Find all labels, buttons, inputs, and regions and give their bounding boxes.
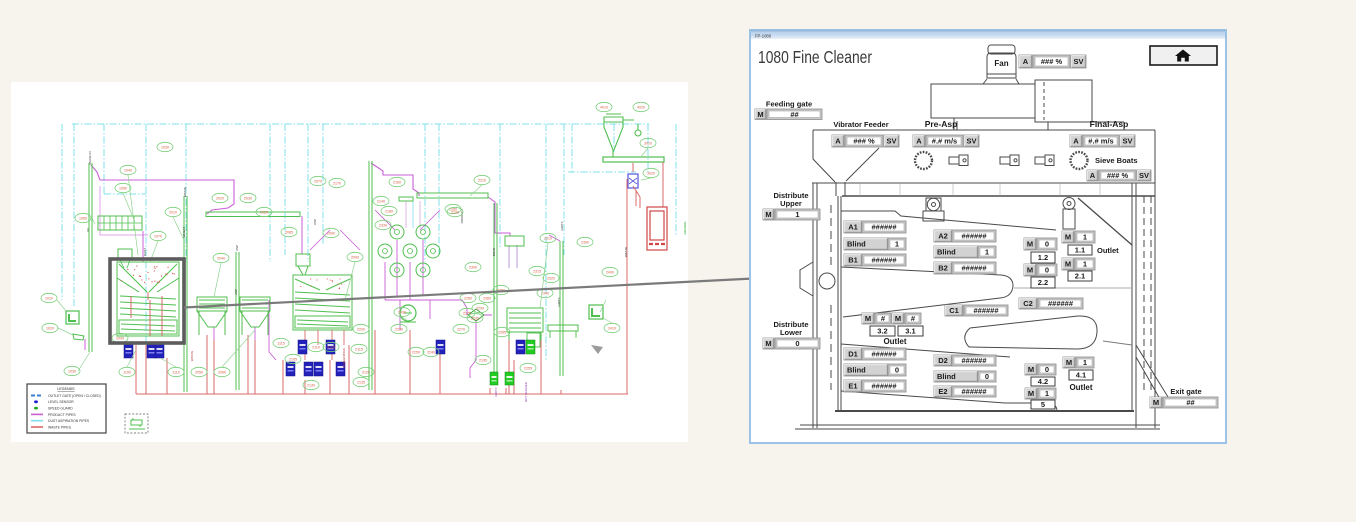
svg-text:### %: ### %: [1041, 57, 1063, 66]
svg-text:4010: 4010: [600, 106, 608, 110]
svg-text:1: 1: [1083, 358, 1087, 367]
svg-text:0: 0: [1045, 266, 1049, 275]
svg-text:######: ######: [1048, 299, 1074, 308]
svg-text:2105: 2105: [289, 358, 297, 362]
svg-text:2260: 2260: [464, 297, 472, 301]
svg-text:1: 1: [1045, 389, 1049, 398]
svg-text:2050: 2050: [195, 371, 203, 375]
svg-text:2240: 2240: [427, 351, 435, 355]
svg-text:2070: 2070: [314, 180, 322, 184]
svg-text:M: M: [1028, 365, 1034, 374]
svg-text:2275: 2275: [463, 312, 471, 316]
svg-text:1060: 1060: [79, 217, 87, 221]
svg-text:Exit gate: Exit gate: [1170, 387, 1201, 396]
svg-text:2010: 2010: [169, 211, 177, 215]
svg-text:IN: IN: [86, 229, 90, 232]
svg-text:M: M: [1065, 260, 1071, 269]
svg-text:A2: A2: [938, 232, 948, 241]
svg-text:SV: SV: [966, 137, 976, 146]
svg-text:2170: 2170: [333, 182, 341, 186]
svg-text:A1: A1: [848, 223, 858, 232]
svg-text:M: M: [865, 314, 871, 323]
svg-text:1: 1: [1083, 260, 1087, 269]
svg-text:Outlet: Outlet: [1069, 383, 1092, 392]
svg-text:4.1: 4.1: [1076, 371, 1086, 380]
svg-text:Blind: Blind: [847, 366, 866, 375]
svg-text:#.# m/s: #.# m/s: [1088, 137, 1113, 146]
svg-text:##: ##: [1186, 398, 1195, 407]
svg-text:SV: SV: [886, 137, 896, 146]
svg-text:3.2: 3.2: [877, 327, 887, 336]
svg-text:PRODUCT PIPES: PRODUCT PIPES: [48, 413, 76, 417]
svg-text:SV: SV: [1139, 171, 1149, 180]
svg-text:Blind: Blind: [847, 240, 866, 249]
svg-text:2030: 2030: [244, 197, 252, 201]
svg-text:2090: 2090: [327, 232, 335, 236]
svg-text:2300: 2300: [469, 266, 477, 270]
svg-text:2295: 2295: [471, 317, 479, 321]
svg-text:2.1: 2.1: [1075, 272, 1085, 281]
svg-text:A: A: [1073, 137, 1079, 146]
svg-text:2120: 2120: [327, 346, 335, 350]
svg-text:Fan: Fan: [994, 59, 1008, 68]
svg-text:######: ######: [961, 356, 987, 365]
svg-text:1.1: 1.1: [1075, 246, 1085, 255]
svg-text:2195: 2195: [479, 359, 487, 363]
svg-text:######: ######: [961, 387, 987, 396]
svg-text:2125: 2125: [362, 371, 370, 375]
svg-text:0: 0: [895, 366, 899, 375]
svg-text:2400: 2400: [606, 271, 614, 275]
svg-text:M: M: [895, 314, 901, 323]
svg-text:B2: B2: [938, 264, 948, 273]
svg-text:Pre-Asp: Pre-Asp: [925, 119, 958, 129]
svg-text:1030: 1030: [161, 146, 169, 150]
svg-text:2330: 2330: [379, 224, 387, 228]
svg-text:2085: 2085: [285, 231, 293, 235]
svg-text:2250: 2250: [412, 351, 420, 355]
svg-text:WHEAT: WHEAT: [182, 227, 186, 238]
svg-text:2000: 2000: [351, 256, 359, 260]
svg-text:M: M: [1027, 240, 1033, 249]
svg-text:2020: 2020: [216, 197, 224, 201]
svg-text:Outlet: Outlet: [1097, 246, 1119, 255]
svg-text:1010: 1010: [45, 297, 53, 301]
svg-text:3010: 3010: [644, 142, 652, 146]
svg-text:ASP: ASP: [234, 289, 238, 295]
svg-text:WASTE PIPES: WASTE PIPES: [48, 425, 72, 429]
svg-text:2315: 2315: [533, 270, 541, 274]
svg-text:1050: 1050: [119, 187, 127, 191]
svg-text:######: ######: [961, 264, 987, 273]
svg-text:2040: 2040: [217, 257, 225, 261]
svg-text:1.2: 1.2: [1038, 253, 1048, 262]
svg-text:LEVEL SENSOR: LEVEL SENSOR: [48, 400, 74, 404]
svg-text:A: A: [916, 137, 922, 146]
svg-text:2230: 2230: [395, 328, 403, 332]
svg-text:LEGENDS: LEGENDS: [57, 387, 75, 391]
svg-text:######: ######: [871, 256, 897, 265]
svg-text:2270: 2270: [457, 328, 465, 332]
svg-text:4.2: 4.2: [1038, 377, 1048, 386]
svg-text:A: A: [1090, 171, 1096, 180]
svg-text:D1: D1: [848, 350, 858, 359]
svg-text:2110: 2110: [312, 346, 320, 350]
svg-text:0: 0: [1045, 240, 1049, 249]
svg-text:1110: 1110: [172, 371, 179, 375]
svg-text:SPEED GUARD: SPEED GUARD: [48, 407, 73, 411]
svg-text:2265: 2265: [498, 331, 506, 335]
svg-text:OUTLET GATE (OPEN / CLOSED): OUTLET GATE (OPEN / CLOSED): [48, 394, 101, 398]
svg-text:0: 0: [985, 372, 989, 381]
svg-text:D2: D2: [938, 356, 948, 365]
svg-text:2310: 2310: [544, 237, 552, 241]
svg-text:B1: B1: [848, 256, 858, 265]
svg-text:DUST ASPIRATION PIPES: DUST ASPIRATION PIPES: [48, 419, 90, 423]
svg-text:ASP: ASP: [235, 245, 239, 251]
svg-text:1040: 1040: [124, 169, 132, 173]
svg-text:3.1: 3.1: [905, 327, 915, 336]
svg-text:2360: 2360: [483, 297, 491, 301]
svg-text:1: 1: [795, 210, 799, 219]
svg-text:Blind: Blind: [937, 372, 956, 381]
svg-text:2410: 2410: [608, 327, 616, 331]
svg-text:2320: 2320: [547, 277, 555, 281]
svg-text:1030: 1030: [68, 370, 76, 374]
svg-text:2210: 2210: [478, 179, 486, 183]
svg-text:1100: 1100: [123, 371, 131, 375]
svg-text:GRITZ: GRITZ: [557, 297, 561, 306]
svg-text:######: ######: [973, 306, 999, 315]
svg-text:WASTE: WASTE: [183, 187, 187, 198]
svg-text:0: 0: [795, 339, 799, 348]
svg-text:E2: E2: [938, 387, 947, 396]
svg-text:M: M: [1027, 266, 1033, 275]
svg-text:Feeding gate: Feeding gate: [766, 100, 812, 109]
svg-text:2060: 2060: [218, 371, 226, 375]
svg-text:### %: ### %: [853, 137, 875, 146]
svg-text:M: M: [1066, 358, 1072, 367]
svg-text:2.2: 2.2: [1038, 278, 1048, 287]
svg-text:GRITZ: GRITZ: [494, 387, 498, 396]
svg-text:######: ######: [871, 382, 897, 391]
svg-text:A: A: [835, 137, 841, 146]
svg-text:0: 0: [1045, 365, 1049, 374]
svg-text:E1: E1: [848, 382, 857, 391]
svg-text:FP-1080: FP-1080: [755, 34, 772, 39]
svg-text:2140: 2140: [377, 200, 385, 204]
svg-text:######: ######: [871, 350, 897, 359]
svg-text:1070: 1070: [154, 235, 162, 239]
svg-text:2025: 2025: [260, 211, 268, 215]
svg-text:M: M: [757, 110, 763, 119]
svg-text:5: 5: [1041, 400, 1045, 409]
svg-text:NOT GRADED: NOT GRADED: [524, 381, 528, 402]
svg-text:2160: 2160: [393, 181, 401, 185]
svg-text:1: 1: [1083, 233, 1087, 242]
svg-text:M: M: [1153, 398, 1159, 407]
svg-text:Vibrator Feeder: Vibrator Feeder: [833, 120, 888, 129]
svg-text:C2: C2: [1023, 299, 1033, 308]
svg-text:WASTE: WASTE: [190, 351, 194, 362]
svg-text:Upper: Upper: [780, 199, 802, 208]
svg-text:DUST: DUST: [143, 248, 147, 256]
svg-text:SV: SV: [1122, 137, 1132, 146]
svg-text:M: M: [1028, 389, 1034, 398]
svg-text:M: M: [765, 339, 771, 348]
svg-text:SCREENINGS: SCREENINGS: [342, 348, 346, 368]
svg-text:GRITZ: GRITZ: [560, 221, 564, 230]
svg-text:4020: 4020: [637, 106, 645, 110]
svg-text:##: ##: [790, 110, 799, 119]
svg-text:Final-Asp: Final-Asp: [1090, 119, 1129, 129]
svg-text:A: A: [1023, 57, 1029, 66]
svg-text:1020: 1020: [46, 327, 54, 331]
svg-text:######: ######: [871, 223, 897, 232]
svg-text:2180: 2180: [385, 210, 393, 214]
svg-text:ASP: ASP: [313, 219, 317, 225]
svg-text:Blind: Blind: [937, 248, 956, 257]
svg-text:C1: C1: [949, 306, 959, 315]
svg-text:2130: 2130: [307, 384, 315, 388]
svg-text:Lower: Lower: [780, 328, 802, 337]
svg-text:2190: 2190: [451, 211, 459, 215]
svg-text:######: ######: [961, 232, 987, 241]
svg-text:2290: 2290: [476, 307, 484, 311]
svg-text:M: M: [1065, 233, 1071, 242]
svg-text:MAIZE IN: MAIZE IN: [88, 151, 92, 164]
svg-text:3020: 3020: [647, 172, 655, 176]
svg-text:1: 1: [895, 240, 899, 249]
svg-text:1115: 1115: [277, 342, 284, 346]
svg-text:2390: 2390: [581, 241, 589, 245]
svg-text:#.# m/s: #.# m/s: [932, 137, 957, 146]
svg-text:M: M: [765, 210, 771, 219]
svg-text:SV: SV: [1073, 57, 1083, 66]
svg-text:GRADED: GRADED: [683, 221, 687, 235]
svg-text:### %: ### %: [1107, 171, 1129, 180]
svg-text:2430: 2430: [398, 311, 406, 315]
svg-text:2200: 2200: [357, 328, 365, 332]
svg-text:WASTE: WASTE: [624, 247, 628, 258]
svg-text:BRAN: BRAN: [492, 248, 496, 256]
svg-text:1090: 1090: [116, 337, 124, 341]
svg-text:2115: 2115: [355, 348, 363, 352]
svg-text:Sieve Boats: Sieve Boats: [1095, 156, 1138, 165]
svg-text:2135: 2135: [357, 381, 365, 385]
svg-text:1080 Fine Cleaner: 1080 Fine Cleaner: [758, 47, 872, 67]
svg-text:1: 1: [985, 248, 989, 257]
svg-text:2255: 2255: [524, 367, 532, 371]
svg-text:Outlet: Outlet: [883, 337, 906, 346]
